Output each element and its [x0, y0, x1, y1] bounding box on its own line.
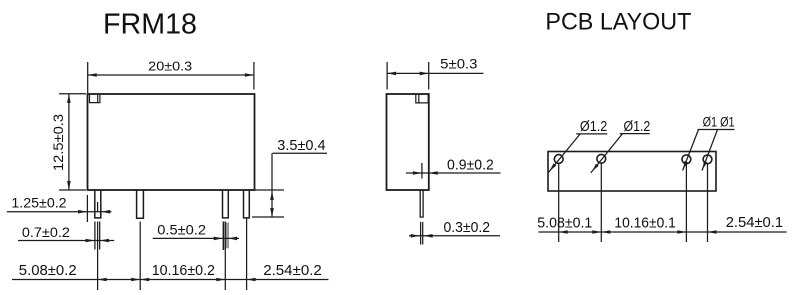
- notch detail front view top-left: [90, 95, 100, 103]
- extension line hole 4: [707, 164, 709, 242]
- pin 1 tip detail: [95, 222, 100, 250]
- svg-text:5±0.3: 5±0.3: [440, 57, 477, 72]
- svg-text:Ø1.2: Ø1.2: [580, 119, 607, 135]
- leader hole 3: [683, 130, 699, 171]
- extension line hole 3: [685, 164, 687, 242]
- dimension 0.7±0.2 pin 1 tip width: [18, 225, 114, 243]
- title PCB LAYOUT: [545, 9, 691, 36]
- extension line hole 1: [558, 164, 560, 242]
- svg-text:Ø1.2: Ø1.2: [624, 119, 651, 135]
- svg-text:Ø1 Ø1: Ø1 Ø1: [703, 115, 735, 130]
- svg-text:0.9±0.2: 0.9±0.2: [447, 158, 494, 174]
- label ø1.2 hole 1 with leader: [548, 119, 607, 173]
- svg-text:0.5±0.2: 0.5±0.2: [157, 223, 206, 238]
- svg-text:10.16±0.1: 10.16±0.1: [614, 214, 675, 231]
- dimension chain 5.08 10.16 2.54 PCB: [537, 214, 786, 234]
- pin 4 front view: [244, 190, 250, 218]
- label ø1 ø1 holes 3 and 4: [698, 115, 735, 130]
- pin tip side view: [421, 222, 423, 245]
- svg-text:2.54±0.2: 2.54±0.2: [263, 262, 322, 279]
- svg-text:2.54±0.1: 2.54±0.1: [726, 214, 783, 231]
- pin 2 front view: [137, 190, 144, 218]
- relay body front view: [88, 94, 255, 190]
- dimension 0.5±0.2 pin 3 tip width: [153, 223, 239, 241]
- pin 1 front view: [95, 190, 101, 218]
- svg-text:0.7±0.2: 0.7±0.2: [22, 225, 70, 240]
- svg-text:0.3±0.2: 0.3±0.2: [444, 220, 491, 236]
- extension line pin 2 center: [139, 222, 141, 290]
- svg-text:PCB LAYOUT: PCB LAYOUT: [545, 9, 691, 36]
- svg-text:12.5±0.3: 12.5±0.3: [51, 114, 66, 171]
- hole 1: [554, 155, 563, 164]
- svg-text:3.5±0.4: 3.5±0.4: [277, 138, 325, 154]
- title FRM18: [103, 8, 197, 40]
- extension line pin 1 center: [97, 222, 99, 291]
- dimension 1.25±0.2: [7, 195, 112, 222]
- pin 3 front view: [223, 190, 229, 218]
- pin side view: [420, 190, 423, 217]
- dimension 0.3±0.2 pin tip thickness: [409, 220, 500, 238]
- hole 3: [682, 155, 691, 164]
- PCB board outline: [548, 152, 716, 192]
- leader hole 4: [702, 130, 718, 171]
- extension line hole 2: [600, 164, 602, 242]
- svg-text:10.16±0.2: 10.16±0.2: [152, 262, 215, 279]
- hole 4: [703, 155, 712, 164]
- label ø1.2 hole 2 with leader: [591, 119, 651, 173]
- extension line pin 3 center: [224, 222, 226, 291]
- extension line pin 4 center: [246, 219, 248, 291]
- svg-text:5.08±0.2: 5.08±0.2: [19, 262, 77, 279]
- pin 3 tip detail: [223, 222, 229, 251]
- svg-text:5.08±0.1: 5.08±0.1: [537, 214, 592, 231]
- svg-text:20±0.3: 20±0.3: [148, 59, 192, 74]
- dimension 20±0.3: [88, 59, 254, 94]
- svg-text:1.25±0.2: 1.25±0.2: [11, 196, 66, 212]
- dimension 0.9±0.2 pin thickness: [406, 158, 501, 179]
- notch detail side view top-right: [416, 95, 428, 103]
- dimension 3.5±0.4 pin length: [252, 138, 327, 217]
- relay body side view: [387, 94, 429, 190]
- dimension chain 5.08 10.16 2.54 front view: [12, 262, 329, 281]
- svg-text:FRM18: FRM18: [103, 8, 197, 40]
- dimension 12.5±0.3: [51, 94, 86, 190]
- hole 2: [597, 154, 606, 163]
- dimension 5±0.3: [387, 57, 483, 90]
